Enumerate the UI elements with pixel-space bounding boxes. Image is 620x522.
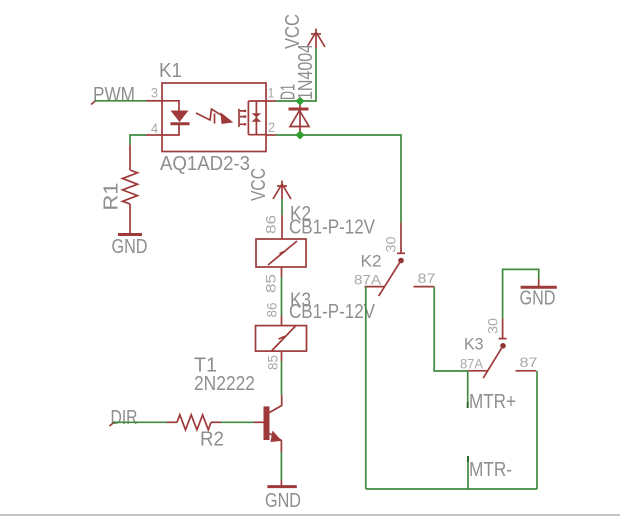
label T1 [194,355,217,377]
label 2N2222 [194,373,255,395]
junction at D1 bottom [296,131,305,140]
relay contact K2 pin 30 [383,223,406,254]
pin 86 K2 coil [263,215,279,234]
pin 4 K1 [146,120,162,136]
relay contact K2 lever [379,258,404,296]
svg-text:1: 1 [268,85,275,101]
svg-text:MTR+: MTR+ [469,391,516,413]
pin 1 K1 [266,85,276,102]
svg-text:85: 85 [263,274,279,293]
svg-text:DIR: DIR [111,407,138,429]
wire GND to K3 pin 30 [503,269,539,318]
wire PWM to K1 pin 3 [95,100,147,102]
pin 85 K3 coil [265,355,281,370]
label VCC (top) [282,14,304,49]
wire K1 pin4 to R1 [130,135,146,145]
relay coil K2 [256,239,306,267]
svg-text:VCC: VCC [248,168,270,201]
node PWM label [91,84,135,106]
bottom divider line [0,514,620,516]
label R1 [101,183,123,211]
ground under R1 [112,235,148,259]
label 1N4004 [295,44,317,100]
wire K2 87A down to bottom rail [365,287,367,489]
wire MTR- stub [467,456,469,489]
svg-text:R1: R1 [101,183,123,211]
label CB1-P-12V K2 [289,217,376,239]
node MTR+ label [469,391,516,413]
pin 87 K2 contact [414,270,436,287]
pin 85 K2 coil [263,274,279,293]
svg-text:CB1-P-12V: CB1-P-12V [289,301,376,323]
svg-text:K2: K2 [361,252,382,271]
relay contact K3 lever [483,343,506,378]
wire VCC to K2 coil pin 86 [281,199,283,239]
MOSFET output inside K1 [239,101,266,135]
pin 87A K2 contact [354,272,385,288]
svg-text:4: 4 [151,120,158,136]
label R2 [200,429,224,451]
wire right rail up to K3 87 [536,371,538,489]
label AQ1AD2-3 [160,153,250,175]
pin 87A K3 contact [460,356,488,372]
svg-text:2N2222: 2N2222 [194,373,255,395]
svg-text:R2: R2 [200,429,224,451]
power VCC (top) [307,29,325,49]
wire DIR to R2 [113,421,167,423]
svg-text:87: 87 [520,354,538,370]
svg-text:3: 3 [151,85,158,101]
svg-text:87A: 87A [460,356,484,372]
svg-text:30: 30 [383,236,399,252]
svg-text:2: 2 [268,119,275,135]
svg-text:86: 86 [263,215,279,234]
svg-text:85: 85 [265,355,281,370]
pin 87 K3 contact [516,354,538,371]
ground under T1 [265,487,301,512]
label K1 [159,60,182,82]
diode D1 [289,101,310,135]
node DIR label [110,407,138,429]
svg-text:PWM: PWM [93,84,135,106]
wire bottom rail [366,488,537,490]
ground top right [520,279,557,310]
label VCC (above K2 coil) [248,168,270,201]
svg-text:K1: K1 [159,60,182,82]
svg-text:CB1-P-12V: CB1-P-12V [289,217,376,239]
svg-text:30: 30 [485,318,501,334]
svg-text:GND: GND [520,288,556,310]
svg-text:GND: GND [112,236,148,258]
pin 2 K1 [266,119,276,135]
svg-text:87: 87 [418,270,436,286]
wire K1 pin2 to K2 contact [276,135,401,223]
power VCC (above K2 coil) [273,181,291,200]
svg-text:GND: GND [265,490,301,512]
LED inside K1 [162,101,190,135]
relay contact K3 pin 30 [485,318,507,339]
svg-text:86: 86 [264,302,280,317]
wire R2 to T1 base [221,421,264,423]
opto light arrow inside K1 [196,109,233,124]
label K2 contact [361,252,382,271]
transistor T1 [264,395,282,452]
label CB1-P-12V K3 [289,301,376,323]
svg-text:K3: K3 [464,335,484,354]
relay coil K3 [256,326,307,352]
svg-text:87A: 87A [354,272,382,288]
node MTR- label [469,459,512,481]
label D1 [278,84,300,100]
junction at D1 top [296,97,305,106]
pin 86 K3 coil [264,302,280,317]
label K2 coil [290,203,311,225]
label K3 coil [290,290,311,312]
op-to-coupler K1 box [162,83,266,152]
wire K1 pin1 to VCC corner [276,48,316,101]
resistor R1 [123,145,138,235]
wire T1 emitter to GND [280,452,282,487]
resistor R2 [167,415,221,430]
svg-text:1N4004: 1N4004 [295,44,317,100]
svg-text:MTR-: MTR- [469,459,512,481]
svg-text:AQ1AD2-3: AQ1AD2-3 [160,153,250,175]
pin 3 K1 [146,85,162,101]
wire MTR+ stub [467,371,469,408]
wire K2 coil to K3 coil [281,267,283,326]
wire K3 coil to T1 collector [281,351,283,395]
svg-text:VCC: VCC [282,14,304,49]
label K3 contact [464,335,484,354]
wire K2 87 down and right to K3 87A [434,287,468,371]
